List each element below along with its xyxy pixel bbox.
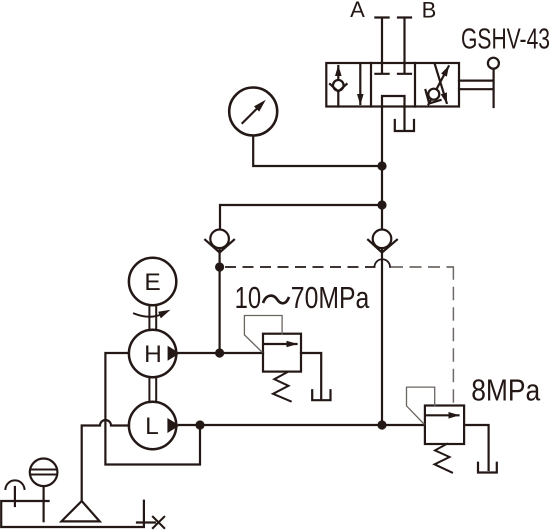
air vent arc <box>5 480 24 489</box>
wire: port A line with tick <box>375 18 388 64</box>
wire: top header line to check valve CV1 <box>220 205 382 229</box>
filler breather stem <box>42 486 44 521</box>
filler breather lines <box>31 470 58 475</box>
node: H outlet junction <box>215 348 224 357</box>
drain shut-off valve (closed) <box>153 517 164 528</box>
pilot line (dashed) down to RV2 <box>452 266 454 404</box>
valve U1 center position: P-T bridge <box>382 96 405 107</box>
svg-text:GSHV-43: GSHV-43 <box>461 24 550 56</box>
check valve CV1 seat <box>205 240 234 253</box>
suction strainer F1 <box>61 501 99 521</box>
relief valve RV2 flow arrow <box>427 414 459 416</box>
air vent stem <box>14 487 16 506</box>
pump H outlet triangle <box>168 346 180 361</box>
wire: main pressure line P vertical <box>381 107 383 426</box>
pilot line hop over main line <box>375 259 391 267</box>
pump L (low pressure) <box>129 402 176 449</box>
relief valve RV1 flow arrow <box>265 343 297 345</box>
tank symbol at valve T port <box>395 120 414 131</box>
lever knob <box>488 58 499 69</box>
wire: RV1 outlet to drain <box>301 353 321 399</box>
tank drain stub <box>137 521 155 523</box>
tank symbol at RV2 drain <box>478 463 497 473</box>
wire: gauge drop line <box>253 136 382 167</box>
shaft E to H (double line) <box>149 305 156 330</box>
valve U1 left position: down arrow <box>359 64 361 105</box>
node: gauge tap junction <box>377 161 386 170</box>
pilot line (dashed) from CV1 to RV2 <box>225 266 375 268</box>
relief valve RV1 spring <box>273 373 291 402</box>
svg-text:8MPa: 8MPa <box>471 372 541 407</box>
pressure gauge PG1 <box>229 88 277 136</box>
relief valve RV1 (10~70MPa) body <box>263 334 301 372</box>
node: main line to RV2 junction <box>377 420 386 429</box>
valve U1 left position: check valve seat <box>330 84 347 92</box>
check valve CV1 ball <box>210 230 229 249</box>
valve U1 center position: A blocked tee <box>375 63 388 74</box>
check valve CV2 ball <box>373 230 392 249</box>
shaft H to L (double line) <box>149 377 156 402</box>
pressure gauge needle head <box>254 100 266 112</box>
reservoir tank T1 <box>1 501 144 527</box>
pump L outlet triangle <box>167 418 179 433</box>
relief valve RV2 pilot loop <box>407 387 435 424</box>
valve U1 right position: diagonal arrow down-right <box>435 64 447 103</box>
valve U1 GSHV-43 body <box>326 63 459 107</box>
svg-text:A: A <box>350 0 365 22</box>
wire: port B line with tick <box>398 18 411 64</box>
relief valve RV1 pilot loop <box>244 316 282 353</box>
wire: pump L outlet line to RV2 <box>179 424 425 426</box>
relief valve RV2 spring <box>435 444 453 473</box>
valve U1 left position: up arrow <box>337 66 339 107</box>
valve U1 section dividers <box>371 63 415 107</box>
wire: T port drain line <box>403 107 405 131</box>
valve U1 right position: diagonal arrow up-right <box>429 66 449 104</box>
electric motor E <box>129 258 176 305</box>
svg-text:E: E <box>144 269 160 296</box>
wire: H suction loop <box>105 353 200 465</box>
check valve CV2 seat <box>368 240 397 253</box>
pump H (high pressure) <box>129 330 176 377</box>
svg-text:B: B <box>422 0 437 23</box>
svg-text:70MPa: 70MPa <box>291 280 370 315</box>
node: pilot tap junction on CV1 line <box>215 262 224 271</box>
wire: CV1 lower lead <box>219 248 221 353</box>
svg-text:L: L <box>145 413 159 440</box>
valve U1 right position: check valve seat <box>426 90 441 104</box>
valve U1 right position: check valve ball <box>428 89 439 100</box>
node: L outlet junction <box>195 420 204 429</box>
filler breather B1 <box>30 459 58 487</box>
tank symbol at RV1 drain <box>312 390 330 400</box>
rotation arrow head <box>158 310 170 319</box>
relief valve RV2 (8MPa) body <box>425 406 464 445</box>
pressure gauge needle <box>243 108 259 124</box>
wire: pump H outlet to relief valve RV1 <box>179 352 263 354</box>
node: header junction <box>377 200 386 209</box>
valve U1 center position: B blocked tee <box>398 63 411 74</box>
pilot line (dashed) continuing to RV2 corner <box>391 266 453 268</box>
svg-text:10: 10 <box>235 280 262 315</box>
wire: RV2 outlet to drain <box>464 425 489 470</box>
lever operator of valve U1 <box>459 69 494 107</box>
wire: L suction with hop over H suction <box>82 420 129 501</box>
valve U1 left position: check valve ball <box>333 80 344 91</box>
value label tilde <box>264 296 289 304</box>
svg-text:H: H <box>144 341 162 368</box>
rotation arrow on shaft <box>134 314 161 317</box>
